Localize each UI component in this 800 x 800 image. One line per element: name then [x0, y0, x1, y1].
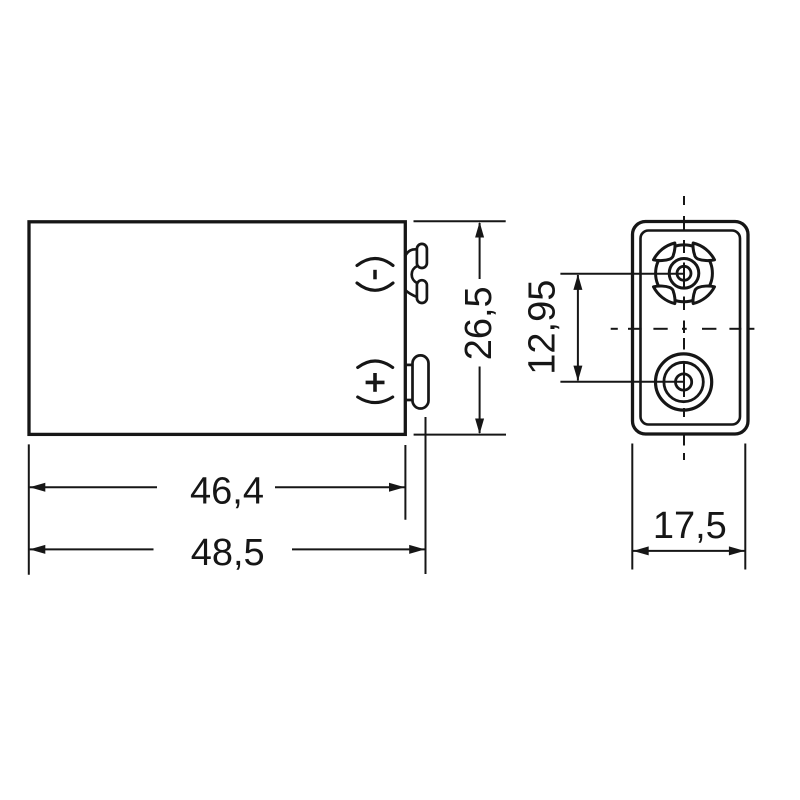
dimension 48,5: [30, 417, 426, 574]
positive terminal top view: [656, 354, 712, 410]
dimension 12,95: [560, 274, 684, 382]
dimension 17,5: [632, 444, 745, 570]
svg-text:26,5: 26,5: [458, 286, 500, 360]
vertical centerline: [683, 196, 685, 460]
dimension 26,5: [414, 221, 507, 434]
negative terminal side profile: [405, 244, 427, 303]
svg-text:12,95: 12,95: [522, 280, 564, 375]
svg-text:46,4: 46,4: [190, 470, 264, 512]
svg-text:17,5: 17,5: [653, 505, 727, 547]
negative terminal top view: [654, 243, 715, 304]
horizontal centerline: [611, 328, 755, 330]
dimension 46,4: [29, 444, 406, 574]
minus label: [357, 259, 393, 291]
top view body outline: [633, 222, 749, 435]
svg-text:48,5: 48,5: [191, 532, 265, 574]
top view inner face edge: [641, 231, 741, 425]
battery body side view: [29, 222, 405, 435]
plus label: [358, 361, 393, 403]
positive terminal side profile: [405, 355, 429, 408]
